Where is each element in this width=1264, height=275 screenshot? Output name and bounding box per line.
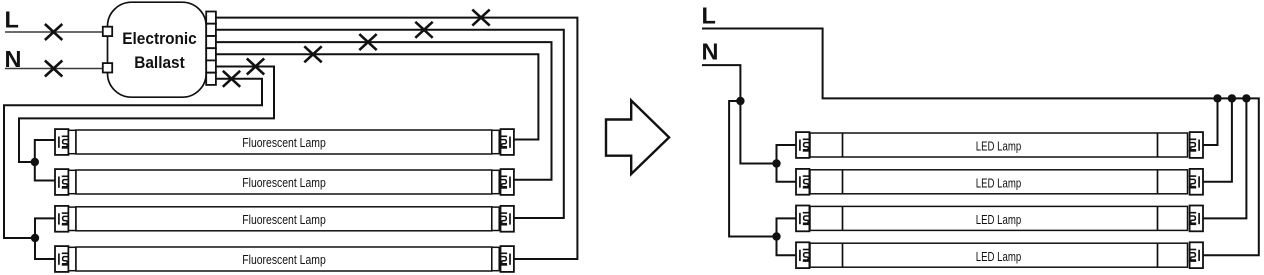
- svg-text:LED Lamp: LED Lamp: [976, 175, 1022, 190]
- cut mark X6 (pin4 wire): [304, 46, 321, 62]
- cut mark X1 (L input cut): [45, 24, 62, 40]
- junction J4: [772, 159, 780, 167]
- lamp holder (left socket) FL1: [55, 129, 69, 155]
- wire ballast pin 3 to lamp FL2 right: [216, 42, 552, 180]
- lamp holder (right socket) LED3: [1189, 206, 1203, 232]
- svg-text:Fluorescent Lamp: Fluorescent Lamp: [242, 252, 326, 267]
- wire J2 to FL3 left: [35, 218, 55, 238]
- svg-text:L: L: [5, 6, 19, 32]
- wire J2 to FL4 left: [35, 238, 55, 259]
- lamp holder (right socket) FL1: [500, 129, 514, 155]
- LED lamp LED1 tube: [810, 133, 1188, 157]
- ballast input pin (N): [103, 63, 112, 72]
- fluorescent lamp FL3 tube: [69, 207, 500, 231]
- wire J3 to junction J5: [729, 101, 772, 237]
- cut mark X8 (pin6 wire): [223, 71, 240, 87]
- svg-text:LED Lamp: LED Lamp: [976, 212, 1022, 227]
- wire ballast pin 2 to lamp FL3 right: [216, 30, 564, 218]
- svg-text:Fluorescent Lamp: Fluorescent Lamp: [242, 175, 326, 190]
- lamp holder (right socket) FL4: [500, 246, 514, 272]
- wire J1 to FL2 left: [35, 162, 55, 181]
- LED lamp LED3 tube: [810, 206, 1188, 230]
- wire ballast pin 6 to junction J2: [4, 79, 262, 238]
- junction J6: [1213, 94, 1221, 102]
- conversion arrow: [606, 101, 669, 175]
- cut mark X7 (pin5 wire): [247, 59, 264, 75]
- svg-text:N: N: [702, 39, 719, 65]
- junction J3: [736, 97, 744, 105]
- cut mark X5 (pin3 wire): [359, 34, 376, 50]
- lamp holder (left socket) LED4: [796, 242, 810, 268]
- junction J8: [1242, 94, 1250, 102]
- svg-text:Ballast: Ballast: [134, 53, 185, 72]
- junction J1: [31, 158, 39, 166]
- fluorescent lamp FL4 tube: [69, 247, 500, 271]
- wire J1 to FL1 left: [35, 140, 55, 162]
- lamp holder (left socket) FL4: [55, 246, 69, 272]
- cut mark X2 (N input cut): [45, 61, 62, 77]
- ballast output pin 1: [206, 12, 216, 24]
- cut mark X4 (pin2 wire): [415, 22, 432, 38]
- svg-text:Fluorescent Lamp: Fluorescent Lamp: [242, 212, 326, 227]
- LED lamp LED2 tube: [810, 170, 1188, 194]
- wire J5 to LED3 left: [777, 218, 797, 236]
- cut mark X3 (pin1 wire): [472, 10, 489, 26]
- lamp holder (right socket) FL3: [500, 206, 514, 232]
- lamp holder (left socket) LED3: [796, 206, 810, 232]
- wire N input to junction J3: [702, 65, 740, 101]
- fluorescent lamp FL1 tube: [69, 130, 500, 154]
- svg-text:Electronic: Electronic: [122, 29, 197, 48]
- wire LED1 right to L line: [1203, 98, 1218, 145]
- ballast output pin 2: [206, 24, 216, 36]
- wire N input to ballast: [5, 68, 103, 70]
- lamp holder (right socket) LED2: [1189, 169, 1203, 195]
- fluorescent lamp FL2 tube: [69, 170, 500, 194]
- junction J2: [31, 234, 39, 242]
- lamp holder (left socket) LED2: [796, 169, 810, 195]
- lamp holder (right socket) FL2: [500, 169, 514, 195]
- LED lamp LED4 tube: [810, 243, 1188, 267]
- wire J5 to LED4 left: [777, 237, 797, 256]
- wire J4 to LED2 left: [777, 164, 797, 182]
- ballast output pin 3: [206, 36, 216, 48]
- wire LED3 right to L line: [1203, 98, 1246, 218]
- wire J3 to junction J4: [740, 101, 772, 164]
- wire J4 to LED1 left: [777, 145, 797, 164]
- svg-text:LED Lamp: LED Lamp: [976, 249, 1022, 264]
- wire L input to ballast: [5, 31, 103, 33]
- svg-text:L: L: [702, 2, 716, 28]
- svg-text:LED Lamp: LED Lamp: [976, 139, 1022, 154]
- wire L to LED lamp right ends: [702, 29, 1259, 256]
- wire ballast pin 1 to lamp FL4 right: [216, 18, 578, 259]
- ballast output pin 6: [206, 73, 216, 85]
- wire ballast pin 4 to lamp FL1 right: [216, 54, 539, 139]
- ballast input pin (L): [103, 27, 112, 36]
- ballast output pin 5: [206, 60, 216, 72]
- junction J7: [1228, 94, 1236, 102]
- svg-text:Fluorescent Lamp: Fluorescent Lamp: [242, 135, 326, 150]
- electronic ballast U1: [108, 2, 207, 97]
- wire ballast pin 5 to junction J1: [19, 67, 274, 163]
- lamp holder (right socket) LED4: [1189, 242, 1203, 268]
- junction J5: [772, 232, 780, 240]
- lamp holder (right socket) LED1: [1189, 132, 1203, 158]
- lamp holder (left socket) FL3: [55, 206, 69, 232]
- lamp holder (left socket) LED1: [796, 132, 810, 158]
- wire LED2 right to L line: [1203, 98, 1232, 181]
- lamp holder (left socket) FL2: [55, 169, 69, 195]
- ballast output pin 4: [206, 48, 216, 60]
